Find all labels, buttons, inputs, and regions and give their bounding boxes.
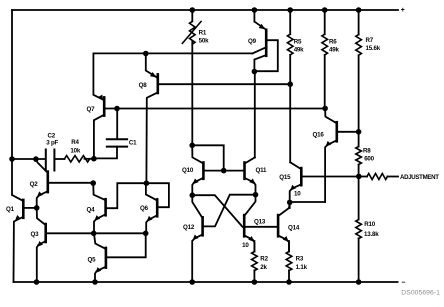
svg-text:ADJUSTMENT: ADJUSTMENT	[400, 174, 439, 181]
svg-text:R5: R5	[294, 38, 302, 45]
wire Q8 base line to R5 bottom	[158, 83, 290, 85]
svg-text:600: 600	[364, 156, 374, 163]
transistor Q5	[94, 233, 146, 282]
svg-text:Q4: Q4	[87, 207, 96, 214]
svg-text:Q14: Q14	[288, 225, 300, 232]
node R4/C1/Q7 collector	[91, 156, 97, 162]
svg-text:Q8: Q8	[139, 82, 148, 89]
transistor Q1	[13, 195, 37, 282]
resistor R4	[65, 156, 90, 162]
node Q16 base / R7-R8	[356, 129, 362, 135]
svg-text:R2: R2	[260, 255, 268, 262]
wire Q16 emitter to Q15/Q14 node	[290, 201, 325, 203]
resistor R8 600	[356, 132, 362, 177]
node R6 top	[322, 7, 328, 13]
node R5 top	[287, 7, 293, 13]
capacitor C2	[46, 150, 55, 171]
wire bottom rail	[13, 281, 397, 283]
svg-text:Q5: Q5	[88, 256, 97, 263]
transistor Q12	[192, 195, 202, 282]
node Q12 emitter on rail	[189, 279, 195, 285]
resistor R2 2k	[252, 241, 258, 282]
wire cross-couple A (Q10 emitter node to Q13 base)	[192, 195, 242, 227]
wire between C2 and R4	[55, 158, 65, 160]
resistor R1 (variable, 50k)	[182, 10, 201, 145]
svg-text:Q9: Q9	[248, 38, 257, 45]
node Q2 base / Q4 collector	[90, 180, 96, 186]
svg-text:C1: C1	[129, 140, 137, 147]
transistor Q2	[36, 159, 93, 208]
svg-text:DS005696-1: DS005696-1	[401, 289, 440, 296]
wire Q3 base bus y233	[94, 232, 146, 234]
svg-text:R1: R1	[199, 30, 207, 37]
svg-text:R7: R7	[366, 37, 374, 44]
transistor Q11	[224, 157, 256, 194]
transistor Q16	[325, 108, 359, 202]
svg-text:10k: 10k	[70, 147, 80, 154]
svg-text:15.6k: 15.6k	[366, 45, 381, 52]
svg-text:Q10: Q10	[182, 167, 194, 174]
node R3 bottom	[286, 279, 292, 285]
wire Q14 collector node down	[289, 202, 291, 208]
svg-text:Q16: Q16	[313, 132, 325, 139]
svg-text:Q11: Q11	[256, 167, 268, 174]
node Q9 collector	[252, 69, 258, 75]
svg-text:50k: 50k	[199, 38, 209, 45]
transistor Q8 (PNP)	[146, 54, 158, 184]
wire left rail	[11, 10, 13, 195]
svg-text:+: +	[401, 7, 405, 14]
node Q10 emitter	[190, 192, 196, 198]
svg-text:10: 10	[294, 190, 301, 197]
transistor Q10	[192, 145, 224, 195]
wire top rail	[12, 9, 398, 11]
wire C1 top stem	[116, 109, 118, 140]
wire Q9 collector down to Q11 collector	[254, 72, 256, 158]
node C1 top / Q7 base	[114, 106, 120, 112]
node R1 bottom	[189, 143, 195, 149]
node Q11 emitter	[253, 192, 259, 198]
transistor Q15	[290, 162, 359, 202]
resistor R10 13.8k	[356, 177, 362, 283]
capacitor C1	[107, 139, 127, 146]
svg-text:Q1: Q1	[6, 206, 15, 213]
node R10 bottom	[356, 279, 362, 285]
resistor R5 49k	[287, 10, 293, 84]
svg-text:10: 10	[242, 242, 249, 249]
transistor Q13	[244, 195, 278, 252]
transistor Q14	[278, 202, 290, 251]
svg-text:Q7: Q7	[87, 106, 96, 113]
resistor R6 49k	[322, 10, 328, 108]
wire Q7 base line to Q16 collector node	[104, 108, 325, 110]
svg-text:Q3: Q3	[31, 231, 40, 238]
transistor Q9 (PNP, diode connected)	[253, 10, 278, 72]
node R6 bottom / Q16 collector	[322, 106, 328, 112]
svg-text:Q13: Q13	[254, 218, 266, 225]
node R1 top	[190, 7, 196, 13]
svg-text:1.1k: 1.1k	[296, 264, 308, 271]
wire C2/R4 row from left rail	[12, 158, 46, 160]
svg-text:Q12: Q12	[183, 224, 195, 231]
transistor Q7 (PNP)	[93, 53, 104, 158]
node Q2 collector	[33, 156, 39, 162]
node Q9 emitter	[252, 7, 258, 13]
node R7 top	[356, 7, 362, 13]
wire C1 bottom stem to R4 node	[94, 147, 117, 159]
wire R1 node to Q10/Q11 base	[192, 145, 224, 170]
node left rail / C2 row	[9, 156, 15, 162]
wire R5 bottom to Q15 collector	[289, 84, 291, 162]
transistor Q4	[93, 183, 146, 233]
svg-text:13.8k: 13.8k	[364, 231, 379, 238]
svg-text:R10: R10	[364, 221, 376, 228]
node Q8 emitter	[143, 51, 149, 57]
svg-text:49k: 49k	[329, 47, 339, 54]
svg-text:49k: 49k	[294, 47, 304, 54]
node R2 bottom	[252, 279, 258, 285]
svg-text:R6: R6	[329, 38, 337, 45]
node Q5 emitter on rail	[92, 279, 98, 285]
svg-text:R4: R4	[71, 139, 79, 146]
svg-text:2k: 2k	[260, 264, 267, 271]
svg-text:Q6: Q6	[140, 205, 149, 212]
node Q6 emitter / Q5 base	[143, 231, 149, 237]
transistor Q3	[37, 208, 94, 282]
svg-text:3 pF: 3 pF	[46, 139, 58, 146]
resistor R3 1.1k	[286, 241, 292, 282]
resistor R7 15.6k	[356, 10, 362, 132]
node Q8 collector / Q4 Q6 bases	[144, 180, 150, 186]
node Q3 emitter on rail	[34, 279, 40, 285]
wire cross-couple B (Q11 emitter node to Q12 base)	[204, 195, 256, 227]
node Q4 emitter / Q5 collector	[91, 231, 97, 237]
svg-text:R3: R3	[296, 255, 304, 262]
wire emitter bus y53 (Q7/Q8 emitters to Q9 base)	[93, 52, 252, 54]
svg-text:Q2: Q2	[30, 181, 39, 188]
node Q14 collector / Q15 emitter	[287, 200, 293, 206]
node Q10/Q11 base	[221, 168, 227, 174]
node Q1 base / Q3 collector	[34, 205, 40, 211]
resistor R9 adjustment arm	[359, 174, 398, 180]
wire R4 right to node	[85, 158, 94, 160]
node Q8 base / R5	[287, 81, 293, 87]
svg-text:−: −	[401, 280, 405, 287]
svg-text:Q15: Q15	[279, 174, 291, 181]
node adjustment	[356, 174, 362, 180]
transistor Q6	[146, 183, 169, 233]
svg-text:R8: R8	[363, 147, 371, 154]
